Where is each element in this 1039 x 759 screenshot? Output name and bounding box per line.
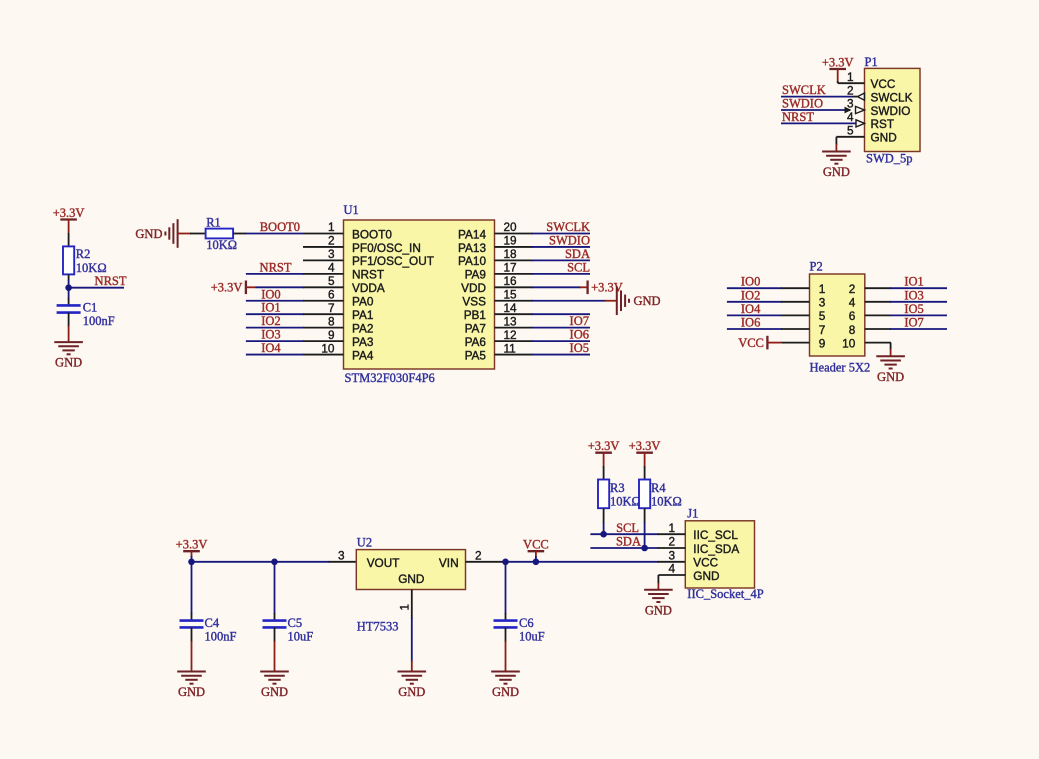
svg-text:7: 7	[819, 323, 826, 337]
svg-text:IIC_SDA: IIC_SDA	[693, 542, 739, 556]
svg-text:IO7: IO7	[570, 314, 589, 328]
svg-text:SWDIO: SWDIO	[871, 104, 911, 118]
svg-text:1: 1	[398, 604, 412, 611]
svg-text:1: 1	[847, 70, 854, 84]
svg-text:HT7533: HT7533	[357, 620, 399, 634]
svg-text:IO7: IO7	[904, 316, 923, 330]
svg-text:SWDIO: SWDIO	[549, 233, 590, 247]
svg-text:4: 4	[849, 296, 856, 310]
svg-text:PA9: PA9	[465, 268, 486, 282]
svg-text:NRST: NRST	[782, 110, 814, 124]
svg-text:100nF: 100nF	[205, 630, 237, 644]
svg-text:NRST: NRST	[95, 274, 127, 288]
svg-text:IO2: IO2	[741, 288, 760, 302]
svg-text:GND: GND	[693, 569, 719, 583]
svg-text:VIN: VIN	[439, 556, 459, 570]
svg-text:GND: GND	[634, 294, 661, 308]
svg-text:C1: C1	[83, 301, 98, 315]
svg-text:4: 4	[668, 562, 675, 576]
svg-text:6: 6	[849, 309, 856, 323]
svg-text:C5: C5	[288, 616, 303, 630]
svg-text:PA10: PA10	[458, 254, 486, 268]
svg-text:GND: GND	[398, 572, 424, 586]
svg-text:STM32F030F4P6: STM32F030F4P6	[345, 371, 435, 385]
svg-text:10uF: 10uF	[519, 630, 545, 644]
svg-text:PA6: PA6	[465, 335, 487, 349]
svg-text:17: 17	[504, 261, 517, 275]
svg-text:R4: R4	[651, 481, 666, 495]
svg-text:IO4: IO4	[741, 302, 761, 316]
svg-text:NRST: NRST	[352, 268, 384, 282]
svg-text:VCC: VCC	[523, 538, 549, 552]
svg-text:9: 9	[328, 328, 335, 342]
svg-text:C6: C6	[519, 616, 534, 630]
svg-text:J1: J1	[687, 507, 698, 521]
svg-text:VCC: VCC	[693, 556, 718, 570]
svg-text:P1: P1	[865, 55, 878, 69]
svg-text:IO0: IO0	[261, 287, 280, 301]
svg-text:U2: U2	[357, 536, 372, 550]
svg-text:PF0/OSC_IN: PF0/OSC_IN	[352, 241, 421, 255]
svg-text:SDA: SDA	[565, 247, 590, 261]
svg-text:GND: GND	[55, 356, 82, 370]
svg-text:SWCLK: SWCLK	[782, 83, 826, 97]
svg-text:PA5: PA5	[465, 348, 487, 362]
svg-text:GND: GND	[178, 685, 205, 699]
svg-text:GND: GND	[871, 131, 897, 145]
svg-text:GND: GND	[645, 603, 672, 617]
svg-text:Header 5X2: Header 5X2	[810, 361, 871, 375]
svg-text:PA4: PA4	[352, 348, 374, 362]
svg-text:GND: GND	[823, 165, 850, 179]
svg-text:PA1: PA1	[352, 308, 373, 322]
svg-text:10KΩ: 10KΩ	[206, 238, 237, 252]
svg-text:NRST: NRST	[260, 260, 292, 274]
svg-text:5: 5	[328, 274, 335, 288]
svg-text:18: 18	[504, 247, 518, 261]
svg-text:IO0: IO0	[741, 275, 760, 289]
svg-text:10: 10	[321, 341, 335, 355]
svg-text:+3.3V: +3.3V	[822, 55, 854, 69]
svg-text:15: 15	[504, 287, 518, 301]
svg-text:11: 11	[504, 341, 516, 355]
svg-text:10KΩ: 10KΩ	[610, 494, 641, 508]
svg-text:13: 13	[504, 314, 518, 328]
svg-text:IO3: IO3	[261, 328, 280, 342]
svg-text:7: 7	[328, 301, 335, 315]
svg-text:PA0: PA0	[352, 295, 374, 309]
svg-text:10uF: 10uF	[288, 630, 314, 644]
svg-text:IO6: IO6	[741, 316, 760, 330]
svg-text:SCL: SCL	[567, 260, 590, 274]
svg-text:IO5: IO5	[904, 302, 923, 316]
svg-text:IO1: IO1	[261, 301, 280, 315]
svg-text:PA13: PA13	[458, 241, 486, 255]
svg-text:IO2: IO2	[261, 314, 280, 328]
svg-text:SCL: SCL	[616, 521, 639, 535]
svg-text:VDD: VDD	[461, 281, 486, 295]
svg-text:2: 2	[475, 548, 482, 562]
svg-text:10KΩ: 10KΩ	[76, 261, 107, 275]
svg-text:SWDIO: SWDIO	[782, 97, 823, 111]
svg-text:4: 4	[847, 110, 854, 124]
svg-text:SWD_5p: SWD_5p	[866, 151, 913, 165]
svg-text:R1: R1	[206, 216, 221, 230]
svg-text:GND: GND	[877, 370, 904, 384]
svg-text:IIC_Socket_4P: IIC_Socket_4P	[687, 587, 763, 601]
svg-text:2: 2	[849, 282, 856, 296]
svg-text:1: 1	[819, 282, 826, 296]
svg-text:RST: RST	[871, 117, 895, 131]
svg-text:+3.3V: +3.3V	[53, 206, 85, 220]
svg-text:20: 20	[504, 220, 518, 234]
svg-text:SWCLK: SWCLK	[871, 90, 913, 104]
svg-text:IO4: IO4	[261, 341, 281, 355]
svg-text:PA3: PA3	[352, 335, 374, 349]
svg-text:BOOT0: BOOT0	[260, 220, 300, 234]
svg-text:12: 12	[504, 328, 517, 342]
svg-text:+3.3V: +3.3V	[591, 281, 623, 295]
svg-text:3: 3	[668, 549, 675, 563]
svg-text:8: 8	[849, 323, 856, 337]
svg-text:+3.3V: +3.3V	[211, 281, 243, 295]
svg-text:IIC_SCL: IIC_SCL	[693, 528, 738, 542]
svg-text:2: 2	[847, 83, 854, 97]
svg-text:IO5: IO5	[570, 341, 589, 355]
svg-text:16: 16	[504, 274, 518, 288]
svg-text:8: 8	[328, 314, 335, 328]
svg-text:VDDA: VDDA	[352, 281, 385, 295]
svg-text:PA14: PA14	[458, 227, 486, 241]
svg-text:1: 1	[668, 521, 675, 535]
svg-text:SWCLK: SWCLK	[546, 220, 590, 234]
svg-text:SDA: SDA	[616, 535, 641, 549]
svg-text:10: 10	[842, 336, 856, 350]
svg-text:R2: R2	[76, 247, 91, 261]
svg-text:PA7: PA7	[465, 321, 486, 335]
svg-text:+3.3V: +3.3V	[176, 538, 208, 552]
svg-text:VSS: VSS	[462, 295, 486, 309]
svg-text:VCC: VCC	[871, 77, 896, 91]
svg-text:GND: GND	[261, 685, 288, 699]
svg-text:VCC: VCC	[738, 336, 764, 350]
svg-text:P2: P2	[810, 260, 823, 274]
svg-text:+3.3V: +3.3V	[588, 439, 620, 453]
svg-text:6: 6	[328, 287, 335, 301]
svg-text:10KΩ: 10KΩ	[651, 494, 682, 508]
svg-text:BOOT0: BOOT0	[352, 227, 392, 241]
svg-text:5: 5	[847, 124, 854, 138]
svg-text:GND: GND	[398, 685, 425, 699]
svg-text:IO3: IO3	[904, 288, 923, 302]
svg-text:1: 1	[328, 220, 335, 234]
svg-text:3: 3	[819, 296, 826, 310]
svg-text:3: 3	[328, 247, 335, 261]
svg-text:3: 3	[338, 548, 345, 562]
svg-text:14: 14	[504, 301, 518, 315]
svg-text:2: 2	[328, 234, 335, 248]
svg-text:19: 19	[504, 234, 517, 248]
svg-text:PA2: PA2	[352, 321, 373, 335]
svg-text:4: 4	[328, 261, 335, 275]
svg-text:VOUT: VOUT	[367, 556, 400, 570]
svg-text:2: 2	[668, 535, 675, 549]
svg-text:PB1: PB1	[464, 308, 486, 322]
svg-text:C4: C4	[205, 616, 220, 630]
svg-text:IO6: IO6	[570, 328, 589, 342]
svg-text:5: 5	[819, 309, 826, 323]
svg-text:GND: GND	[492, 685, 519, 699]
svg-text:+3.3V: +3.3V	[629, 439, 661, 453]
svg-text:GND: GND	[135, 227, 162, 241]
svg-text:IO1: IO1	[904, 275, 923, 289]
svg-text:9: 9	[819, 336, 826, 350]
svg-text:PF1/OSC_OUT: PF1/OSC_OUT	[352, 254, 434, 268]
svg-text:R3: R3	[610, 481, 625, 495]
svg-text:U1: U1	[344, 203, 359, 217]
svg-text:100nF: 100nF	[83, 314, 115, 328]
